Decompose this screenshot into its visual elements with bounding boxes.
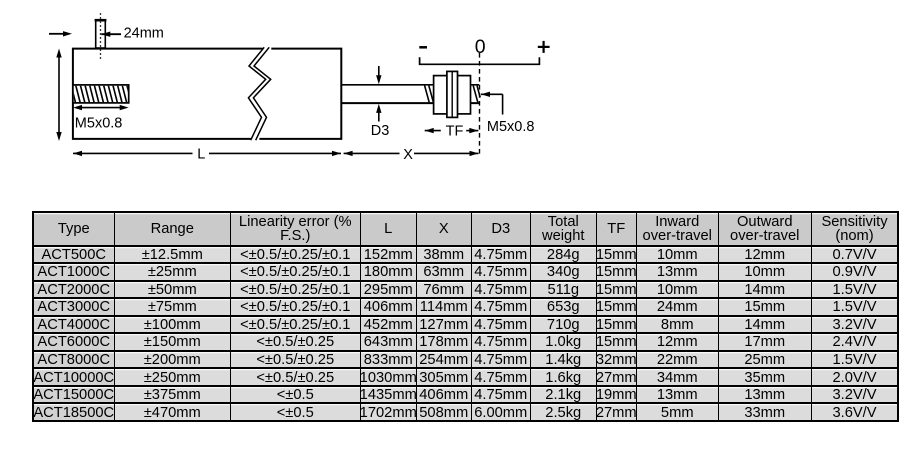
svg-text:TF: TF [446,124,464,140]
svg-text:24mm: 24mm [124,26,164,42]
svg-text:M5x0.8: M5x0.8 [487,119,535,135]
svg-text:L: L [197,147,205,163]
svg-text:M5x0.8: M5x0.8 [75,116,123,132]
svg-text:X: X [403,147,413,163]
svg-text:0: 0 [475,36,486,58]
svg-text:D3: D3 [371,123,390,139]
